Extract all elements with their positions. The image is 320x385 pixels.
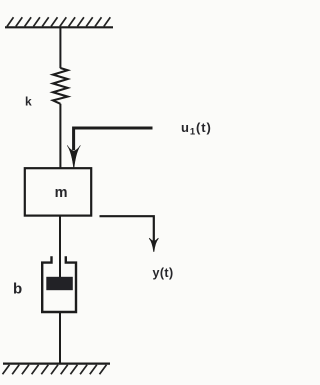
rod from ceiling to spring	[59, 27, 61, 68]
rod from spring to mass	[59, 104, 61, 168]
ground hatching	[3, 365, 107, 375]
output takeoff line y(t)	[100, 216, 154, 243]
damper cylinder b	[42, 256, 76, 312]
svg-text:k: k	[25, 95, 32, 109]
spring k zigzag	[53, 68, 68, 104]
output arrowhead y(t)	[149, 238, 158, 252]
fixed ground support line	[3, 362, 110, 364]
mass block m	[25, 168, 91, 215]
fixed ceiling support line	[5, 26, 113, 28]
svg-text:u1(t): u1(t)	[181, 120, 212, 138]
rod from damper to ground	[59, 312, 61, 364]
svg-text:m: m	[55, 185, 68, 201]
force input line u1(t)	[74, 128, 153, 150]
force arrowhead u1(t)	[67, 145, 80, 169]
svg-text:b: b	[13, 281, 22, 298]
background paper	[0, 0, 219, 385]
damper piston (filled)	[46, 277, 73, 290]
svg-text:y(t): y(t)	[153, 266, 174, 280]
rod from mass to damper piston	[59, 216, 61, 278]
ceiling hatching	[7, 17, 110, 26]
